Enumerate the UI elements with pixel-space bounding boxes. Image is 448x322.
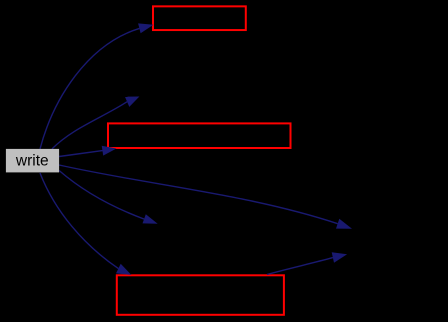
svg-text:write: write bbox=[15, 152, 49, 169]
